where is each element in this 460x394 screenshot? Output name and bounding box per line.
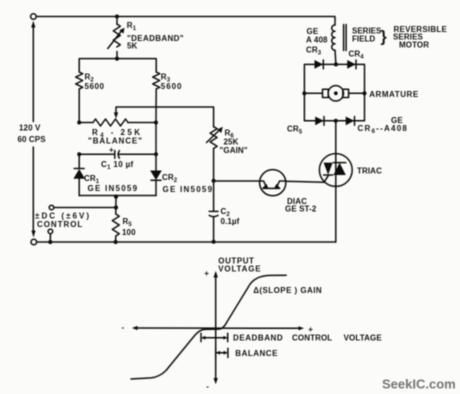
diode CR6 — [346, 116, 408, 135]
node gate — [212, 179, 216, 183]
svg-text:-: - — [206, 382, 209, 391]
svg-text:5K: 5K — [127, 42, 138, 51]
svg-text:GE IN5059: GE IN5059 — [88, 184, 139, 193]
svg-text:60 CPS: 60 CPS — [18, 135, 47, 144]
svg-text:DEADBAND: DEADBAND — [233, 333, 283, 342]
svg-text:CONTROL: CONTROL — [292, 333, 332, 342]
svg-text:}: } — [381, 29, 387, 46]
terminal control + — [49, 205, 54, 210]
diode CR3 — [315, 60, 324, 69]
svg-text:A 408: A 408 — [306, 36, 328, 45]
balance bracket — [216, 348, 278, 358]
wire control — [54, 207, 116, 209]
node C1 right — [154, 152, 158, 156]
node bridge left — [302, 91, 306, 95]
wire bottom rail — [37, 241, 336, 243]
diac GE ST-2 — [260, 170, 317, 214]
watermark — [382, 377, 456, 392]
node R5 bottom — [114, 240, 118, 244]
label DC control — [35, 212, 91, 230]
svg-text:120 V: 120 V — [19, 124, 41, 133]
svg-text:MOTOR: MOTOR — [399, 41, 429, 50]
svg-text:+: + — [109, 146, 114, 155]
svg-text:VOLTAGE: VOLTAGE — [218, 264, 261, 273]
terminal control - — [48, 229, 53, 242]
graph axes — [122, 256, 314, 391]
deadband bracket — [201, 333, 382, 342]
diode CR2 — [150, 123, 213, 196]
terminal top-left — [31, 14, 37, 20]
svg-text:TRIAC: TRIAC — [357, 167, 382, 176]
wire row y107 to R6 — [116, 107, 214, 127]
wiper arrow R4 — [114, 112, 118, 118]
resistor R2 — [76, 72, 105, 123]
svg-text:"BALANCE": "BALANCE" — [88, 137, 143, 146]
svg-text:GE ST-2: GE ST-2 — [285, 205, 317, 214]
label slope gain — [253, 286, 322, 295]
capacitor C1 — [79, 146, 156, 172]
potentiometer R4 — [79, 119, 156, 146]
wire gate to diac — [214, 180, 260, 182]
wire bridge frame — [304, 64, 364, 120]
resistor R5 — [112, 196, 136, 243]
node R5 top — [114, 195, 118, 199]
node control ground — [48, 240, 52, 244]
node control join — [114, 205, 118, 209]
svg-text:100: 100 — [122, 228, 136, 237]
diode CR1 — [73, 154, 138, 195]
svg-text:BALANCE: BALANCE — [235, 349, 278, 358]
svg-text:FIELD: FIELD — [352, 35, 375, 44]
diode CR5 — [287, 117, 324, 136]
motor armature — [304, 86, 418, 101]
svg-text:ARMATURE: ARMATURE — [369, 90, 419, 99]
svg-text:CONTROL: CONTROL — [37, 220, 83, 229]
node R4 right — [154, 121, 158, 125]
resistor R6 rheostat — [207, 127, 248, 181]
capacitor C2 — [209, 181, 239, 242]
wire top rail — [36, 17, 335, 26]
svg-text:"GAIN": "GAIN" — [220, 146, 248, 155]
graph curve — [131, 275, 286, 379]
wire diac to triac gate — [286, 175, 329, 182]
resistor R3 — [153, 72, 183, 123]
svg-text:-: - — [122, 323, 125, 332]
node C1 left — [77, 152, 81, 156]
svg-text:0.1µf: 0.1µf — [221, 217, 240, 226]
svg-text:+: + — [204, 269, 209, 278]
wire CR bottom row — [79, 195, 156, 197]
svg-text:GE IN5059: GE IN5059 — [163, 185, 214, 194]
node R1 top — [115, 15, 119, 19]
node C2 bottom — [212, 240, 216, 244]
source annotation 120V line — [18, 21, 47, 238]
triac — [319, 154, 382, 187]
svg-text:5600: 5600 — [161, 82, 183, 91]
svg-text:VOLTAGE: VOLTAGE — [344, 333, 383, 342]
wire triac vertical — [335, 121, 337, 242]
node bridge bottom — [334, 119, 338, 123]
node R1 bottom — [115, 57, 119, 61]
diode CR4 — [347, 60, 356, 69]
terminal bottom-left — [31, 239, 37, 245]
wire row y58 — [79, 59, 156, 72]
svg-text:SeekIC.com: SeekIC.com — [382, 377, 456, 392]
node R4 left — [77, 121, 81, 125]
svg-text:Δ(SLOPE ) GAIN: Δ(SLOPE ) GAIN — [253, 286, 322, 295]
resistor R1 rheostat — [108, 17, 184, 59]
svg-text:5600: 5600 — [85, 82, 105, 91]
inductor series field coil — [306, 25, 448, 65]
node bridge right — [362, 91, 366, 95]
node bridge top — [334, 62, 338, 66]
